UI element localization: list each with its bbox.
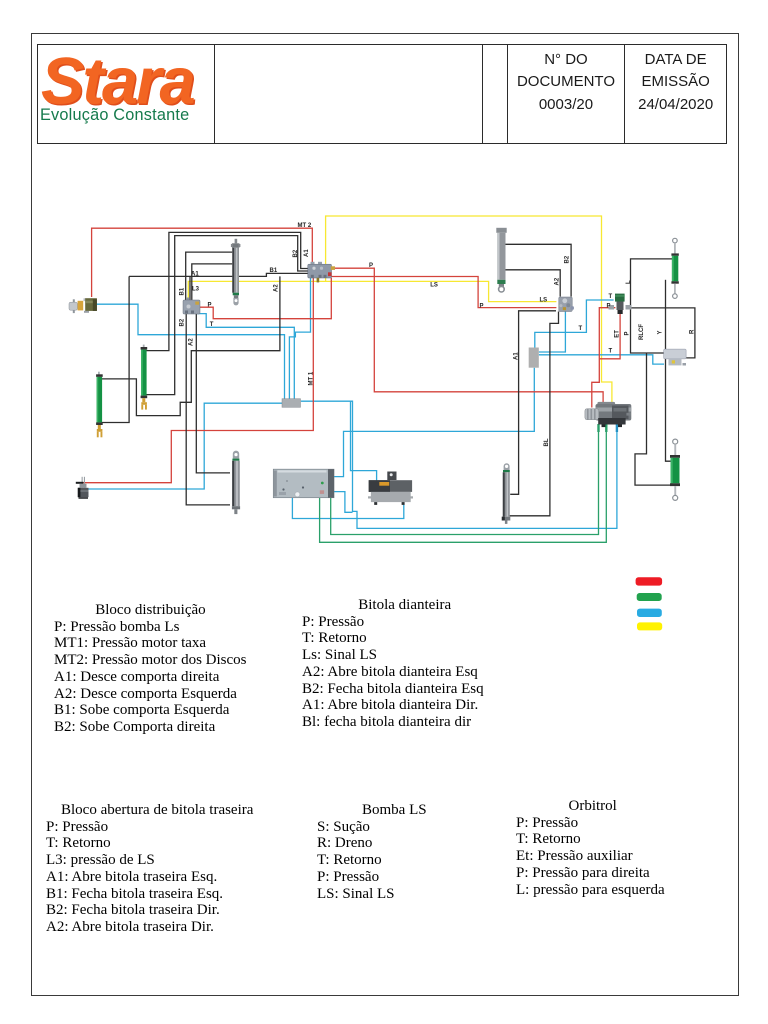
svg-text:T: T [210,322,214,328]
svg-text:P: P [607,304,611,310]
svg-text:BL: BL [544,438,550,446]
svg-text:MT 2: MT 2 [298,223,312,229]
svg-text:A2: A2 [188,338,194,346]
svg-text:A1: A1 [304,249,310,257]
svg-text:B2: B2 [179,318,185,326]
svg-text:P: P [480,304,484,310]
svg-text:T: T [579,326,583,332]
svg-text:A1: A1 [191,272,199,278]
svg-text:T: T [609,294,613,300]
svg-text:A1: A1 [513,352,519,360]
svg-text:R: R [690,329,696,334]
svg-text:L: L [626,280,632,284]
svg-text:B2: B2 [564,255,570,263]
svg-text:P: P [369,263,373,269]
svg-text:LS: LS [540,298,548,304]
svg-text:ET: ET [615,330,621,338]
svg-text:Y: Y [658,330,664,334]
svg-text:RLCF: RLCF [639,324,645,340]
svg-text:B2: B2 [293,249,299,257]
svg-text:B1: B1 [270,268,278,274]
svg-text:P: P [624,331,630,335]
svg-text:L3: L3 [192,287,200,293]
svg-text:A2: A2 [554,277,560,285]
svg-text:MT 1: MT 1 [308,371,314,385]
svg-text:LS: LS [430,283,438,289]
svg-text:T: T [609,349,613,355]
svg-text:A2: A2 [274,284,280,292]
svg-text:B1: B1 [179,287,185,295]
svg-text:P: P [208,303,212,309]
